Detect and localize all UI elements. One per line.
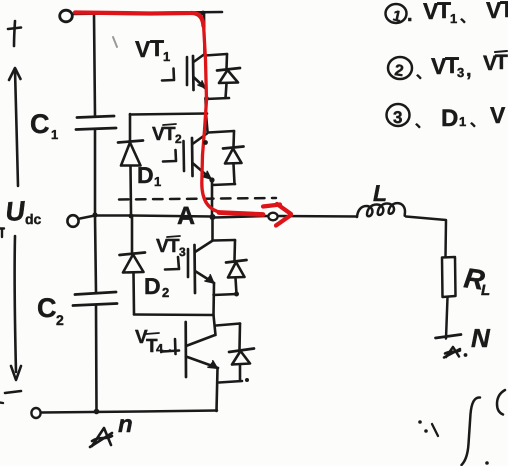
label C1 (30, 109, 58, 142)
minus polarity mark (5, 391, 21, 393)
transistor VT1 (IGBT) (162, 55, 205, 91)
diode D2 (120, 216, 146, 314)
diode across VT1 (204, 54, 240, 101)
svg-text:D: D (137, 162, 154, 188)
transistor VT3 (IGBT) (165, 241, 214, 293)
terminal O (neutral) (67, 215, 78, 227)
svg-text:T: T (150, 35, 164, 61)
svg-text:2: 2 (162, 285, 169, 300)
svg-text:L: L (373, 180, 387, 206)
svg-text:、: 、 (415, 114, 430, 131)
label VT4 (135, 327, 170, 357)
wire: inductor to corner, down to RL (406, 217, 446, 258)
junction dot bus/bottom-rail (94, 409, 100, 415)
plus polarity mark (8, 21, 21, 46)
wire: terminal to inductor (278, 215, 357, 218)
wire: RL to node N (446, 298, 448, 339)
svg-text:T: T (437, 0, 451, 23)
partial parenthesis at right edge (497, 390, 505, 415)
diode across VT3 (213, 240, 247, 297)
wire: VT3/VT4 junction rail (134, 313, 213, 316)
svg-text:2: 2 (175, 132, 182, 146)
svg-text:D: D (144, 273, 161, 299)
wire: left bus lower (95, 216, 96, 292)
diode across VT4 (216, 324, 254, 383)
label VT3 (156, 236, 186, 259)
svg-text:1: 1 (51, 127, 58, 142)
terminal + (top left) (60, 10, 73, 22)
Udc up arrow (9, 68, 21, 186)
svg-text:D: D (441, 105, 458, 132)
label n (118, 411, 133, 438)
wire: mid rail O to node A (80, 216, 212, 219)
junction dot VT2 emitter (209, 177, 214, 182)
svg-text:dc: dc (25, 211, 42, 227)
svg-text:1: 1 (154, 174, 161, 189)
svg-text:1: 1 (459, 114, 466, 129)
label line 2: circled 2, VT3, VT (388, 51, 508, 82)
label A (177, 202, 195, 230)
wire: main bus top segment (203, 13, 206, 55)
label VT1 (135, 35, 170, 64)
terminal on output (268, 213, 277, 221)
node N tick (436, 335, 462, 339)
svg-text:,: , (466, 59, 472, 81)
label N (471, 323, 491, 353)
label line 3: circled 3, D1, V (387, 102, 507, 132)
dashed neutral line (119, 198, 276, 200)
label Udc (4, 196, 41, 227)
label D2 (144, 273, 169, 300)
transistor VT2 (IGBT) (163, 134, 211, 180)
label line 1: circled 1, VT1, VT (386, 0, 508, 26)
svg-text:C: C (37, 293, 57, 323)
label L (373, 180, 387, 206)
wire: left bus bottom (95, 306, 98, 412)
capacitor C1 (76, 116, 116, 130)
svg-text:1: 1 (450, 11, 457, 26)
svg-text:T: T (500, 0, 508, 22)
wire: bottom rail (41, 411, 217, 413)
svg-text:、: 、 (416, 65, 431, 82)
svg-text:A: A (177, 202, 195, 230)
wire: bus VT4 emitter to bottom rail (217, 369, 218, 412)
svg-text:T: T (495, 51, 508, 74)
svg-text:V: V (135, 36, 151, 62)
diode D1 (118, 114, 143, 214)
scribble crossed-out A (bottom left) (90, 428, 112, 447)
svg-text:L: L (481, 282, 490, 299)
wire: bus VT1 emitter to junction rail (206, 99, 208, 132)
junction blob VT2 collector (203, 140, 208, 145)
svg-text:C: C (30, 109, 50, 139)
wire: left bus upper (94, 14, 95, 116)
wire: left bus mid (94, 130, 97, 215)
svg-text:3: 3 (179, 245, 186, 259)
wire: bus VT2 emitter to node A (211, 180, 214, 217)
svg-text:3: 3 (457, 65, 464, 80)
label C2 (37, 293, 64, 328)
wire: node A to output terminal (214, 216, 268, 218)
junction dot D-column/mid-rail (129, 214, 134, 219)
svg-text:1: 1 (163, 49, 170, 64)
label VT2 (152, 124, 182, 146)
transistor VT4 (IGBT) (163, 322, 218, 377)
svg-text:3: 3 (393, 108, 402, 127)
label RL (462, 262, 490, 299)
terminal o (bottom left) (31, 408, 40, 418)
wire: bus junction rail to VT4 (214, 315, 216, 335)
svg-text:、: 、 (470, 113, 485, 130)
capacitor C2 (73, 292, 117, 306)
svg-text:4: 4 (156, 341, 164, 356)
resistor RL (442, 257, 456, 297)
wire: bus node A to VT3 (211, 218, 214, 241)
stray pen mark (113, 37, 117, 47)
svg-text:U: U (4, 196, 27, 227)
inductor L (357, 203, 405, 217)
wire: top rail (73, 12, 222, 14)
svg-text:n: n (118, 411, 133, 438)
Udc down arrow (11, 236, 21, 380)
wire: VT1/VT2 junction rail (130, 114, 207, 115)
svg-text:、: 、 (460, 9, 475, 26)
junction dot bus/mid-rail (92, 212, 97, 217)
integral brace (462, 397, 481, 465)
svg-text:N: N (471, 323, 491, 353)
svg-text:2: 2 (56, 312, 64, 328)
node A (210, 214, 216, 220)
therefore mark (418, 420, 438, 436)
left edge marks (0, 229, 4, 238)
diode across VT2 (209, 131, 244, 185)
svg-text:V: V (490, 102, 506, 128)
svg-text:.: . (407, 4, 413, 26)
wire: bus VT3 emitter to junction rail (212, 283, 215, 315)
scribble crossed-out A near N (444, 347, 467, 358)
label D1 (137, 162, 161, 189)
junction on top rail (201, 11, 206, 16)
red current path wire (75, 13, 291, 226)
